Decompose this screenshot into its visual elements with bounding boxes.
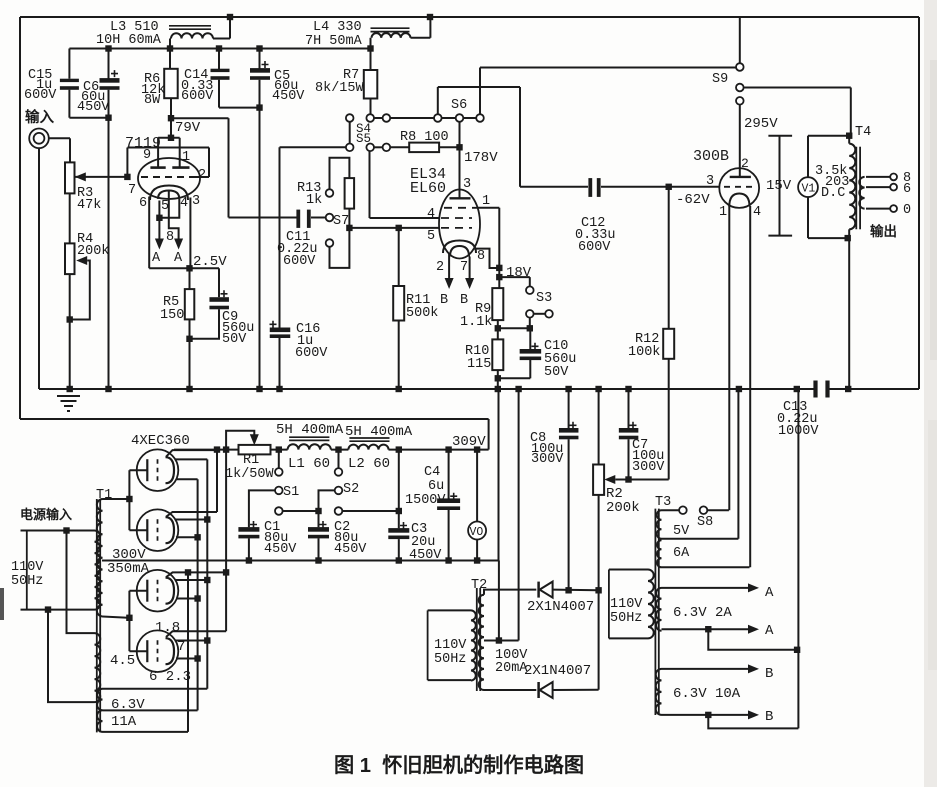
svg-text:6u: 6u	[428, 479, 444, 494]
svg-text:6 2.3: 6 2.3	[149, 669, 191, 685]
svg-text:8W: 8W	[144, 93, 161, 108]
svg-text:S6: S6	[451, 98, 467, 113]
svg-text:110V: 110V	[434, 638, 467, 653]
svg-text:18V: 18V	[506, 265, 532, 281]
svg-text:50V: 50V	[222, 332, 247, 347]
svg-text:3: 3	[706, 174, 714, 189]
svg-text:100k: 100k	[628, 345, 660, 360]
svg-text:11A: 11A	[111, 714, 137, 730]
svg-text:2: 2	[436, 260, 444, 275]
svg-text:5: 5	[161, 199, 169, 214]
svg-text:L1 60: L1 60	[288, 456, 330, 472]
svg-text:450V: 450V	[77, 100, 110, 115]
svg-text:200k: 200k	[77, 244, 109, 259]
svg-text:5: 5	[427, 229, 435, 244]
svg-text:600V: 600V	[578, 240, 611, 255]
svg-text:5H 400mA: 5H 400mA	[345, 424, 413, 440]
svg-text:6.3V 10A: 6.3V 10A	[673, 686, 741, 702]
svg-text:T3: T3	[655, 495, 671, 510]
svg-text:8k/15W: 8k/15W	[315, 81, 365, 96]
svg-text:6: 6	[903, 182, 911, 197]
svg-text:6.3V: 6.3V	[111, 697, 145, 713]
svg-text:V1: V1	[802, 183, 816, 196]
svg-text:150: 150	[160, 308, 184, 323]
svg-text:C4: C4	[424, 465, 440, 480]
svg-text:350mA: 350mA	[107, 561, 150, 577]
svg-text:1: 1	[482, 194, 490, 209]
svg-text:115: 115	[467, 357, 491, 372]
svg-text:450V: 450V	[272, 89, 305, 104]
svg-text:50V: 50V	[544, 365, 569, 380]
svg-text:295V: 295V	[744, 116, 778, 132]
svg-text:R1: R1	[243, 453, 259, 468]
svg-text:6.3V 2A: 6.3V 2A	[673, 605, 732, 621]
svg-text:200k: 200k	[606, 500, 640, 516]
svg-text:电源输入: 电源输入	[20, 507, 72, 522]
svg-text:S8: S8	[697, 515, 713, 530]
svg-text:5H 400mA: 5H 400mA	[276, 422, 344, 438]
svg-text:T4: T4	[855, 125, 871, 140]
svg-text:5V: 5V	[673, 524, 690, 539]
svg-text:4.5: 4.5	[110, 653, 135, 669]
svg-text:1.1k: 1.1k	[460, 315, 492, 330]
svg-text:S5: S5	[356, 132, 371, 146]
svg-text:450V: 450V	[409, 548, 442, 563]
svg-text:600V: 600V	[181, 89, 214, 104]
svg-text:S7: S7	[333, 214, 349, 229]
svg-text:4: 4	[180, 196, 188, 211]
svg-text:79V: 79V	[175, 120, 201, 136]
svg-text:输入: 输入	[25, 108, 54, 126]
svg-text:3: 3	[463, 177, 471, 192]
svg-text:A: A	[765, 623, 774, 639]
svg-text:B: B	[460, 293, 468, 308]
svg-text:L2 60: L2 60	[348, 456, 390, 472]
svg-text:178V: 178V	[464, 150, 498, 166]
svg-text:B: B	[440, 293, 448, 308]
svg-text:T1: T1	[96, 488, 112, 503]
svg-text:6A: 6A	[673, 546, 690, 561]
svg-text:B: B	[765, 666, 773, 682]
svg-text:50Hz: 50Hz	[434, 652, 466, 667]
svg-text:1k: 1k	[306, 193, 322, 208]
svg-text:8: 8	[166, 230, 174, 245]
svg-text:450V: 450V	[334, 542, 367, 557]
svg-text:2: 2	[741, 156, 749, 171]
svg-text:-62V: -62V	[676, 192, 710, 208]
svg-text:B: B	[765, 709, 773, 725]
svg-text:1: 1	[182, 150, 190, 165]
svg-text:D.C: D.C	[821, 186, 845, 201]
svg-text:S9: S9	[712, 72, 728, 87]
svg-text:110V: 110V	[610, 597, 643, 612]
svg-text:4: 4	[753, 205, 761, 220]
svg-text:110V: 110V	[11, 560, 44, 575]
svg-text:A: A	[174, 251, 183, 266]
svg-text:10H 60mA: 10H 60mA	[96, 33, 162, 48]
svg-text:2X1N4007: 2X1N4007	[524, 663, 591, 679]
svg-text:600V: 600V	[295, 346, 328, 361]
svg-text:309V: 309V	[452, 434, 486, 450]
svg-text:7: 7	[177, 639, 185, 655]
svg-text:S2: S2	[343, 482, 359, 497]
svg-text:500k: 500k	[406, 306, 438, 321]
svg-text:7: 7	[128, 183, 136, 198]
svg-text:S1: S1	[283, 485, 299, 500]
svg-text:3: 3	[192, 194, 200, 209]
svg-text:300B: 300B	[693, 148, 729, 165]
svg-text:A: A	[152, 251, 161, 266]
svg-text:600V: 600V	[24, 88, 57, 103]
svg-text:2.5V: 2.5V	[193, 254, 227, 270]
svg-text:9: 9	[143, 148, 151, 163]
svg-text:6: 6	[139, 196, 147, 211]
svg-text:4: 4	[427, 207, 435, 222]
svg-text:47k: 47k	[77, 198, 101, 213]
svg-text:300V: 300V	[632, 460, 665, 475]
svg-text:1: 1	[719, 205, 727, 220]
svg-text:S3: S3	[536, 291, 552, 306]
svg-text:300V: 300V	[531, 452, 564, 467]
svg-text:8: 8	[477, 249, 485, 264]
svg-text:输出: 输出	[870, 223, 897, 239]
svg-text:2: 2	[198, 168, 206, 183]
svg-text:R8 100: R8 100	[400, 130, 449, 145]
svg-text:600V: 600V	[283, 254, 316, 269]
svg-text:图 1 怀旧胆机的制作电路图: 图 1 怀旧胆机的制作电路图	[334, 753, 584, 777]
svg-text:A: A	[765, 585, 774, 601]
svg-text:1500V: 1500V	[405, 493, 446, 508]
svg-text:2X1N4007: 2X1N4007	[527, 599, 594, 615]
svg-text:4XEC360: 4XEC360	[131, 433, 190, 449]
svg-text:L4 330: L4 330	[313, 20, 362, 35]
svg-text:7: 7	[460, 260, 468, 275]
svg-text:50Hz: 50Hz	[610, 611, 642, 626]
svg-text:1k/50W: 1k/50W	[225, 467, 275, 482]
svg-text:450V: 450V	[264, 542, 297, 557]
svg-text:7H 50mA: 7H 50mA	[305, 34, 363, 49]
svg-text:VO: VO	[470, 526, 484, 539]
svg-text:1.8: 1.8	[155, 620, 180, 636]
svg-text:50Hz: 50Hz	[11, 574, 43, 589]
svg-text:0: 0	[903, 203, 911, 218]
svg-text:EL60: EL60	[410, 180, 446, 197]
svg-text:15V: 15V	[766, 178, 792, 194]
